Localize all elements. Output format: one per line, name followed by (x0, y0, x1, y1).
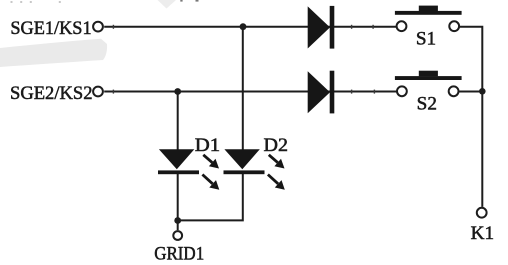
svg-text:D2: D2 (264, 135, 289, 156)
svg-text:GRID1: GRID1 (154, 244, 204, 265)
svg-text:SGE2/KS2: SGE2/KS2 (10, 83, 93, 104)
svg-text:SGE1/KS1: SGE1/KS1 (10, 18, 91, 39)
svg-text:D1: D1 (195, 135, 220, 156)
svg-text:S1: S1 (416, 29, 436, 50)
svg-text:S2: S2 (417, 94, 437, 115)
svg-text:K1: K1 (471, 223, 494, 244)
